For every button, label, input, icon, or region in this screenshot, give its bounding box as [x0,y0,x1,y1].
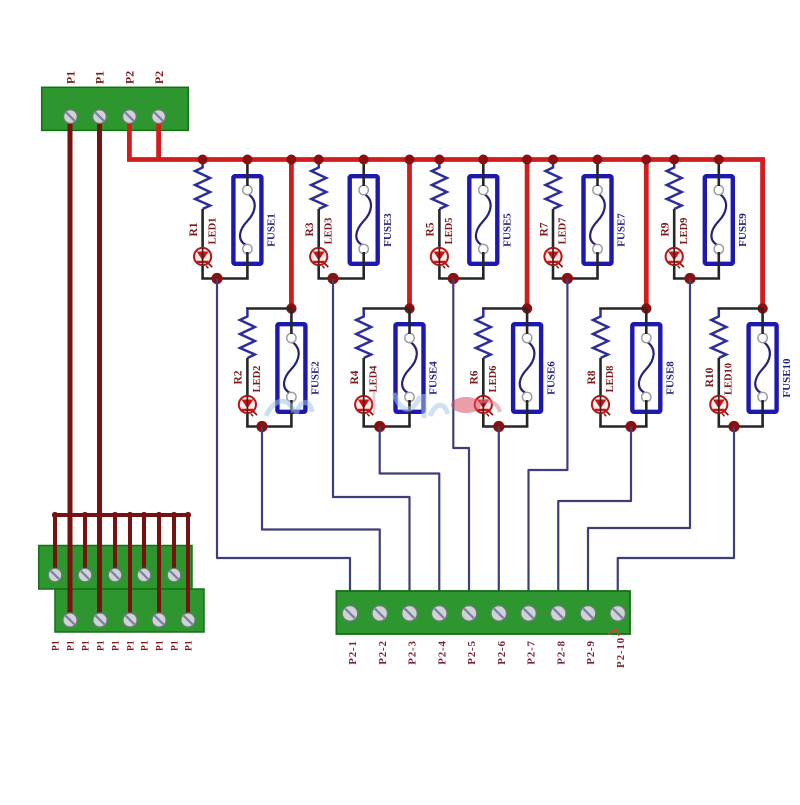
svg-text:R5: R5 [425,222,437,236]
svg-text:P1: P1 [64,71,78,84]
svg-text:P2: P2 [123,71,137,84]
svg-text:R10: R10 [704,367,716,387]
svg-text:P1: P1 [156,640,166,651]
svg-text:FUSE3: FUSE3 [382,213,394,247]
svg-text:P2-4: P2-4 [436,640,448,665]
svg-text:LED8: LED8 [605,366,616,393]
svg-text:P2: P2 [152,71,166,84]
svg-text:LED1: LED1 [207,218,218,245]
svg-text:P2-10: P2-10 [615,637,627,668]
svg-text:P2-8: P2-8 [555,640,567,665]
svg-text:R9: R9 [660,222,672,236]
svg-text:P2-7: P2-7 [526,640,538,665]
svg-text:LED7: LED7 [558,218,569,245]
svg-text:P2-9: P2-9 [585,640,597,665]
svg-text:LED5: LED5 [444,218,455,245]
svg-text:LED10: LED10 [724,363,735,395]
svg-text:R6: R6 [469,370,481,384]
svg-text:FUSE8: FUSE8 [665,361,677,395]
svg-text:LED4: LED4 [368,365,379,393]
svg-text:R4: R4 [349,370,361,384]
svg-text:FUSE6: FUSE6 [545,361,557,395]
svg-text:FUSE5: FUSE5 [502,213,514,247]
svg-text:P2-6: P2-6 [496,640,508,665]
svg-text:FUSE7: FUSE7 [616,213,628,247]
svg-text:P1: P1 [185,640,195,651]
svg-text:P1: P1 [93,71,107,84]
svg-text:FUSE9: FUSE9 [737,213,749,247]
svg-text:P1: P1 [141,640,151,651]
svg-text:FUSE2: FUSE2 [310,361,322,395]
svg-text:LED3: LED3 [323,218,334,245]
svg-text:R1: R1 [188,222,200,236]
svg-text:P2-3: P2-3 [407,640,419,665]
svg-text:P1: P1 [171,640,181,651]
svg-text:LED9: LED9 [679,218,690,245]
svg-text:FUSE10: FUSE10 [781,358,793,398]
svg-text:P1: P1 [52,640,62,651]
svg-text:P1: P1 [112,640,122,651]
svg-text:P2-2: P2-2 [377,640,389,665]
svg-text:LED6: LED6 [488,366,499,393]
svg-text:LED2: LED2 [252,366,263,393]
svg-text:FUSE1: FUSE1 [266,213,278,247]
svg-text:R7: R7 [538,222,550,236]
svg-text:P1: P1 [67,640,77,651]
svg-text:R3: R3 [304,222,316,236]
svg-text:P1: P1 [82,640,92,651]
svg-text:P2-5: P2-5 [466,640,478,665]
svg-text:R2: R2 [233,370,245,384]
svg-text:P1: P1 [97,640,107,651]
svg-text:FUSE4: FUSE4 [428,361,440,395]
svg-text:P2-1: P2-1 [347,640,359,665]
svg-text:P1: P1 [127,640,137,651]
svg-text:R8: R8 [586,370,598,384]
